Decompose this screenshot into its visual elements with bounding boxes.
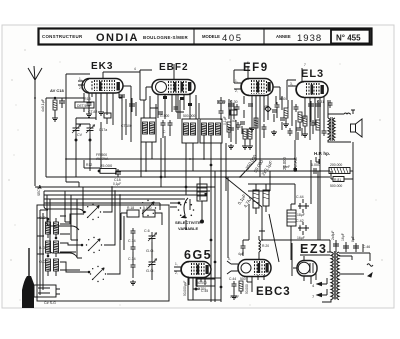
svg-text:6.000: 6.000 [311,163,320,167]
svg-text:G.O.: G.O. [146,248,154,253]
svg-text:500.000: 500.000 [183,114,195,118]
svg-text:2,: 2, [79,86,82,90]
svg-text:4µF: 4µF [238,252,244,256]
svg-text:EL3: EL3 [301,68,324,80]
svg-text:140: 140 [230,119,236,123]
svg-text:4x0,1µF: 4x0,1µF [41,98,45,112]
svg-text:18µF: 18µF [297,213,305,217]
svg-text:16µF: 16µF [341,233,345,241]
svg-text:RAY.AC: RAY.AC [293,157,298,172]
svg-text:C.14: C.14 [128,257,136,261]
svg-text:405: 405 [222,33,243,44]
svg-text:EBC3: EBC3 [256,286,291,298]
svg-text:1,: 1, [79,77,82,81]
svg-text:50.000: 50.000 [245,284,249,294]
svg-text:2x8µF: 2x8µF [331,231,335,241]
svg-text:1938: 1938 [297,33,322,44]
svg-text:DET.500: DET.500 [77,104,90,108]
svg-text:R.18: R.18 [127,206,134,210]
svg-text:1,: 1, [235,79,238,83]
svg-text:C.31: C.31 [317,100,324,104]
svg-text:CONSTRUCTEUR: CONSTRUCTEUR [42,34,83,39]
svg-text:C.6: C.6 [144,229,150,233]
svg-text:C.30: C.30 [230,100,238,104]
svg-text:5,: 5, [228,257,231,261]
svg-text:C.14: C.14 [128,239,136,243]
svg-text:SECT: SECT [37,187,41,196]
svg-text:B.O: B.O [39,246,45,250]
svg-text:R.81: R.81 [334,178,341,182]
svg-text:45: 45 [264,105,268,109]
svg-text:BOULOGNE-S/MER: BOULOGNE-S/MER [143,35,188,40]
svg-text:3,: 3, [290,82,293,86]
svg-text:6G5: 6G5 [184,248,212,262]
svg-text:50.000: 50.000 [197,281,207,285]
svg-text:C# S-G: C# S-G [44,301,56,305]
svg-text:G.500: G.500 [160,114,169,118]
svg-text:AV. 7AA: AV. 7AA [96,157,109,161]
svg-text:R18: R18 [84,97,91,101]
svg-text:200.000: 200.000 [330,163,342,167]
svg-text:N° 455: N° 455 [336,34,361,43]
svg-text:EK3: EK3 [91,61,113,72]
svg-text:CT.82: CT.82 [88,110,97,114]
svg-text:C.22: C.22 [218,100,226,104]
svg-text:5.000: 5.000 [143,206,152,210]
svg-text:C.44: C.44 [229,277,236,281]
svg-text:2,: 2, [175,271,178,275]
svg-text:AV C18: AV C18 [50,88,64,93]
svg-text:0,1µF: 0,1µF [113,182,121,186]
svg-text:100µF: 100µF [230,295,239,299]
svg-text:H.P. hp.: H.P. hp. [314,151,330,156]
svg-text:EZ3: EZ3 [300,242,327,256]
svg-text:C.46: C.46 [363,245,370,249]
svg-text:8µF: 8µF [351,236,355,242]
svg-text:6: 6 [247,61,249,65]
svg-text:VARIABLE: VARIABLE [178,226,198,231]
svg-text:16µF: 16µF [297,236,305,240]
svg-text:500.000: 500.000 [330,184,342,188]
svg-text:ANNEE: ANNEE [276,34,291,39]
svg-text:C.42: C.42 [296,219,304,223]
svg-text:1,: 1, [175,262,178,266]
svg-text:C.45: C.45 [201,289,208,293]
svg-text:ONDIA: ONDIA [96,32,139,44]
svg-text:25.000: 25.000 [100,163,113,168]
svg-text:50.000µµF: 50.000µµF [183,281,187,296]
svg-text:CT.100: CT.100 [121,124,132,128]
svg-text:C17a: C17a [99,128,107,132]
svg-text:500: 500 [240,277,246,281]
svg-text:CV: CV [77,133,83,137]
svg-text:O.C: O.C [39,260,46,264]
svg-text:0,1µF: 0,1µF [223,116,227,125]
svg-text:G.O: G.O [39,216,46,220]
svg-text:MeF: MeF [283,165,291,169]
svg-text:SELECTIVITE: SELECTIVITE [175,220,201,225]
svg-text:G.O.: G.O. [146,268,154,273]
svg-text:C.44: C.44 [296,195,304,199]
svg-text:MODELE: MODELE [202,34,220,39]
svg-text:R.20: R.20 [262,244,269,248]
svg-text:7: 7 [304,63,306,67]
svg-text:2,: 2, [235,89,238,93]
svg-text:450: 450 [280,97,286,101]
svg-text:R12: R12 [86,163,92,167]
svg-text:4: 4 [134,67,136,71]
